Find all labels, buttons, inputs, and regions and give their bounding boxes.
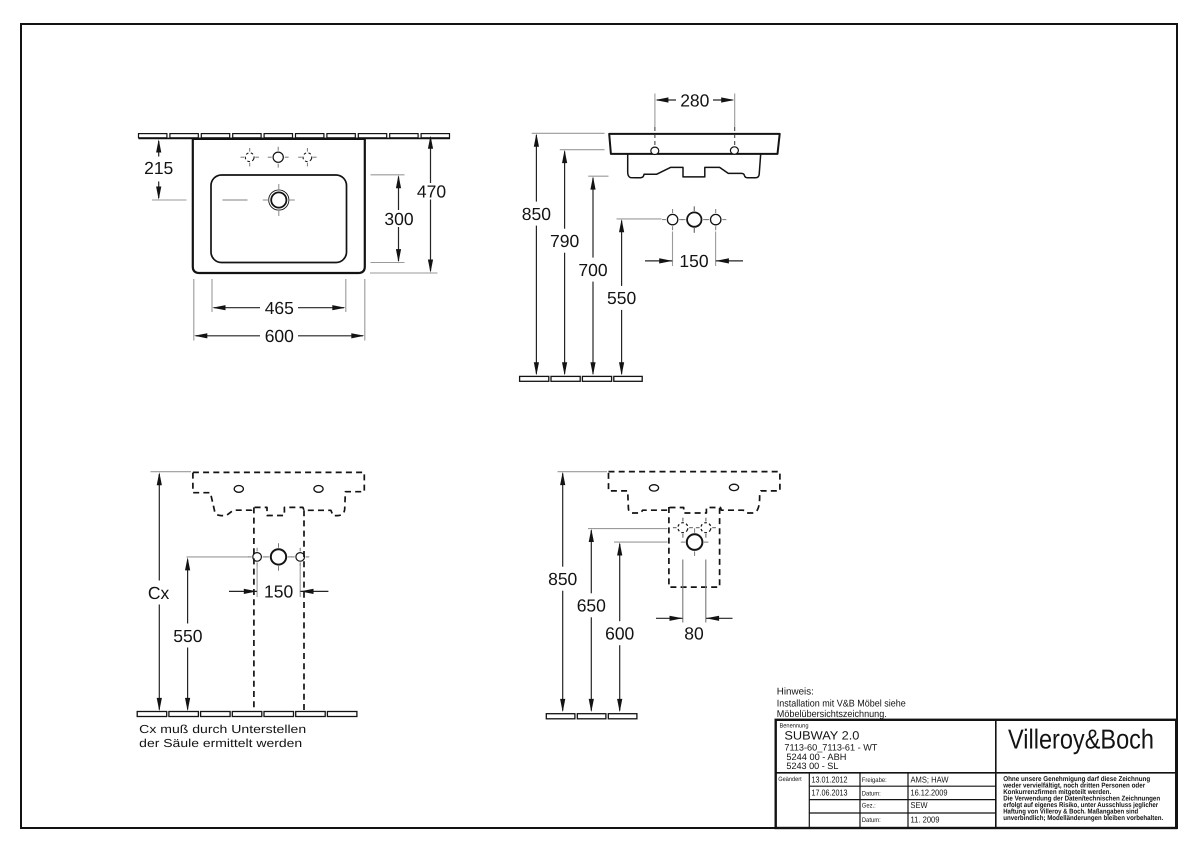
dimension 700 (side view) bbox=[578, 176, 607, 375]
dimension 465 bbox=[212, 279, 346, 318]
svg-text:150: 150 bbox=[264, 582, 293, 602]
extension line fixing holes (650) bbox=[588, 528, 668, 530]
wall tile hatching (front view) bbox=[139, 134, 451, 139]
revision table grid bbox=[809, 773, 996, 828]
svg-text:Villeroy&Boch: Villeroy&Boch bbox=[1008, 723, 1154, 754]
svg-text:550: 550 bbox=[607, 288, 636, 308]
svg-text:Freigabe:: Freigabe: bbox=[862, 777, 887, 784]
legal disclaimer text bbox=[1002, 776, 1163, 822]
svg-text:700: 700 bbox=[578, 260, 607, 280]
svg-text:600: 600 bbox=[265, 326, 294, 346]
right drill hole bbox=[705, 209, 726, 230]
extension line drain height bbox=[187, 556, 249, 558]
centre tap hole bbox=[268, 147, 289, 168]
main drain hole bbox=[265, 543, 292, 570]
svg-text:13.01.2012: 13.01.2012 bbox=[812, 774, 848, 784]
dimension 850 (pedestal side) bbox=[548, 472, 577, 712]
svg-text:Installation mit V&B Möbel sie: Installation mit V&B Möbel siehe bbox=[777, 698, 906, 709]
svg-text:80: 80 bbox=[684, 623, 704, 643]
extension line 700 bbox=[588, 175, 608, 177]
left oval hole (side) bbox=[649, 485, 658, 491]
extension line drill hole height bbox=[617, 218, 662, 220]
washbasin outer outline (front view) bbox=[193, 139, 365, 273]
title block outer border bbox=[776, 720, 1176, 828]
overflow/drain double circle bbox=[263, 184, 295, 216]
dimension 600 bbox=[194, 279, 365, 346]
drain hole (pedestal side) bbox=[681, 528, 709, 556]
small drain hole left bbox=[248, 548, 266, 566]
svg-text:AMS; HAW: AMS; HAW bbox=[911, 774, 950, 784]
fixing hole left dashed (pedestal side) bbox=[673, 518, 693, 538]
svg-text:5243 00 - SL: 5243 00 - SL bbox=[786, 761, 838, 771]
dimension 150 (pedestal view) bbox=[229, 564, 328, 602]
svg-text:Cx: Cx bbox=[148, 583, 170, 603]
extension line 790 bbox=[560, 149, 605, 151]
right tap hole (dashed crosshair) bbox=[298, 148, 316, 166]
svg-text:Geändert: Geändert bbox=[778, 776, 802, 783]
dimension 280 bbox=[655, 90, 735, 127]
extension line top (Cx) bbox=[151, 471, 192, 473]
dimension 600 (pedestal side) bbox=[605, 542, 634, 712]
left drill hole bbox=[662, 209, 683, 230]
basin slab outline (side view) bbox=[609, 134, 780, 154]
svg-text:Gez.:: Gez.: bbox=[862, 803, 876, 810]
fixing hole centrelines dashed bbox=[655, 127, 735, 146]
bowl underside profile (side view) bbox=[628, 154, 761, 178]
svg-text:650: 650 bbox=[577, 596, 606, 616]
svg-text:850: 850 bbox=[522, 204, 551, 224]
svg-text:unverbindlich; Modelländerunge: unverbindlich; Modelländerungen bleiben … bbox=[1003, 815, 1163, 822]
dashed basin outline (side view with pedestal) bbox=[609, 472, 780, 513]
svg-text:150: 150 bbox=[679, 251, 708, 271]
left tap hole (dashed crosshair) bbox=[241, 148, 259, 166]
dimension 300 bbox=[371, 175, 414, 263]
dimension 790 (side view) bbox=[550, 150, 579, 376]
dimension Cx bbox=[148, 472, 170, 711]
svg-text:16.12.2009: 16.12.2009 bbox=[911, 788, 948, 798]
dimension 470 bbox=[370, 136, 446, 273]
floor tile hatching (pedestal side view) bbox=[546, 714, 637, 719]
right oval hole (side) bbox=[729, 484, 738, 490]
right oval hole bbox=[314, 486, 323, 493]
pedestal dashed sides bbox=[254, 507, 304, 711]
dimension 650 (pedestal side) bbox=[577, 529, 606, 712]
svg-text:Datum:: Datum: bbox=[862, 817, 881, 824]
svg-text:600: 600 bbox=[605, 624, 634, 644]
left oval hole bbox=[234, 486, 243, 493]
svg-text:17.06.2013: 17.06.2013 bbox=[812, 788, 848, 798]
svg-text:550: 550 bbox=[173, 626, 202, 646]
svg-text:470: 470 bbox=[417, 181, 446, 201]
dimension 550 (pedestal view) bbox=[173, 557, 202, 711]
fixing hole right dashed (pedestal side) bbox=[696, 518, 716, 538]
inner bowl outline (front view) bbox=[211, 175, 347, 263]
svg-text:850: 850 bbox=[548, 569, 577, 589]
floor tile hatching (side view) bbox=[520, 376, 643, 381]
svg-text:Hinweis:: Hinweis: bbox=[777, 686, 814, 697]
dimension 550 (side view) bbox=[607, 219, 636, 375]
svg-text:280: 280 bbox=[680, 90, 709, 110]
right fixing hole (side view) bbox=[730, 147, 738, 154]
svg-text:SUBWAY 2.0: SUBWAY 2.0 bbox=[784, 728, 859, 742]
extension line top of basin (850) bbox=[558, 471, 608, 473]
svg-text:300: 300 bbox=[384, 209, 413, 229]
small drain hole right bbox=[291, 548, 309, 566]
svg-text:SEW: SEW bbox=[911, 800, 929, 810]
water line mark left of drain bbox=[223, 199, 248, 201]
svg-text:465: 465 bbox=[265, 298, 294, 318]
extension line top of basin bbox=[532, 132, 605, 134]
svg-text:Datum:: Datum: bbox=[862, 790, 881, 797]
title block horizontal divider bbox=[776, 772, 1176, 774]
dimension 215 bbox=[144, 139, 186, 200]
svg-text:Cx muß durch Unterstellen: Cx muß durch Unterstellen bbox=[139, 723, 306, 736]
tap drill holes row (side view) bbox=[681, 206, 708, 233]
dimension 80 bbox=[656, 560, 733, 644]
pedestal dashed outline (side) bbox=[669, 507, 720, 587]
dimension 850 (side view) bbox=[522, 134, 551, 376]
svg-text:790: 790 bbox=[550, 231, 579, 251]
svg-text:der Säule ermittelt werden: der Säule ermittelt werden bbox=[139, 737, 302, 750]
svg-text:215: 215 bbox=[144, 158, 173, 178]
left fixing hole (side view) bbox=[651, 147, 659, 154]
dashed basin outline (front view with pedestal) bbox=[193, 472, 364, 515]
svg-text:11. 2009: 11. 2009 bbox=[911, 815, 940, 825]
extension line drain (600) bbox=[614, 541, 668, 543]
floor tile hatching (pedestal front view) bbox=[137, 712, 357, 717]
dimension 150 (side view) bbox=[645, 232, 743, 272]
Hinweis note bbox=[777, 686, 906, 720]
svg-text:Möbelübersichtszeichnung.: Möbelübersichtszeichnung. bbox=[777, 709, 887, 720]
title block vertical divider bbox=[995, 720, 997, 828]
